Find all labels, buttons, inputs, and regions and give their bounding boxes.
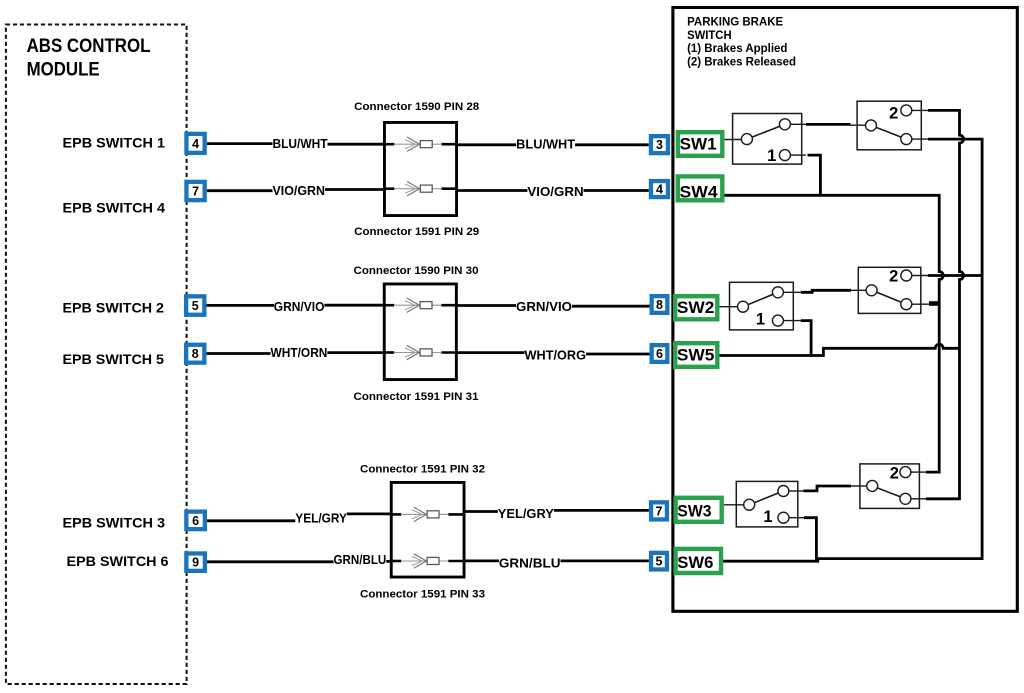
ABS pin 8 [186,345,204,363]
svg-text:(2) Brakes Released: (2) Brakes Released [687,54,796,68]
svg-text:VIO/GRN: VIO/GRN [273,184,326,198]
svg-text:EPB SWITCH 2: EPB SWITCH 2 [63,300,165,316]
wire S1a to S1b [806,123,851,126]
switch S3a (row3 left) [736,481,798,527]
svg-text:Connector 1591 PIN 33: Connector 1591 PIN 33 [360,589,485,601]
svg-text:EPB SWITCH 3: EPB SWITCH 3 [63,515,166,531]
ABS control module box (dashed) [6,25,187,685]
svg-text:Connector 1591 PIN 32: Connector 1591 PIN 32 [360,464,485,476]
wire SW6 to bus (left segment with step) [723,559,818,562]
net SW4 bus (SW4 to S3b contact2, hops over S2b contact2 wire) [725,195,944,472]
connector box 1591 lower [390,482,466,577]
switch pin 5 [651,553,667,570]
wire S3a to S3b [804,486,852,491]
wire S2a top contact lead [783,291,801,293]
ABS pin 6 [186,512,205,530]
svg-text:1: 1 [763,508,772,526]
wire WHT/ORN label to connector 1591 [327,351,382,354]
svg-text:9: 9 [192,556,199,570]
svg-text:1: 1 [767,147,776,165]
svg-text:EPB SWITCH 1: EPB SWITCH 1 [63,135,166,151]
svg-text:Connector 1591 PIN 29: Connector 1591 PIN 29 [354,226,479,238]
parking brake switch box [673,8,1017,612]
svg-text:SWITCH: SWITCH [687,28,732,42]
svg-text:Connector 1590 PIN 30: Connector 1590 PIN 30 [354,265,479,277]
svg-text:WHT/ORN: WHT/ORN [271,346,328,360]
wire S2b contact2 lead [912,275,928,277]
svg-text:EPB SWITCH 4: EPB SWITCH 4 [63,200,166,216]
node SW4 [678,176,723,201]
switch S3b (row3 right) [860,464,920,509]
svg-text:VIO/GRN: VIO/GRN [527,185,583,199]
svg-text:ABS CONTROL: ABS CONTROL [27,35,151,57]
wire connector to WHT/ORG right label [458,351,525,354]
svg-text:4: 4 [192,137,199,151]
node SW3 [676,498,722,522]
node SW2 [675,296,717,319]
wire SW1 to switch S1a common [725,139,742,141]
wire pin6 to YEL/GRY label [207,519,295,522]
svg-text:SW5: SW5 [677,347,715,365]
svg-text:2: 2 [889,268,898,286]
wire S3b bottom contact lead [911,498,926,500]
wire S3b contact2 lead [911,471,926,473]
svg-text:7: 7 [656,504,663,518]
wire pin7 to VIO/GRN label [207,189,273,192]
svg-text:5: 5 [192,299,199,313]
switch pin 6 [652,345,668,362]
svg-text:3: 3 [656,138,663,152]
wire S2a to S2b [801,290,851,292]
wire YEL/GRY right label to pin 7 [554,509,649,512]
wire S1a top contact lead [790,123,806,125]
wire connector to GRN/VIO right label [458,304,516,307]
svg-text:GRN/VIO: GRN/VIO [516,300,572,314]
wire VIO/GRN label to connector 1591 [325,188,383,191]
wire pin9 to GRN/BLU label [207,560,334,563]
svg-text:BLU/WHT: BLU/WHT [516,138,575,152]
switch S1b (row1 right) [857,101,921,150]
wire S3a contact1 lead [789,517,806,519]
wire connector to GRN/BLU right label [466,560,499,563]
wire GRN/BLU label to connector 1591 [386,560,390,563]
wire pin5 to GRN/VIO label [207,304,275,307]
svg-text:SW1: SW1 [680,135,717,153]
node SW1 [678,132,722,156]
svg-text:8: 8 [656,298,663,312]
wire S2b common lead [851,289,866,291]
switch pin 4 [651,181,668,197]
wire S3b common lead [851,485,867,487]
switch S2a (row2 left) [730,282,794,330]
svg-text:SW6: SW6 [677,554,713,572]
svg-text:PARKING BRAKE: PARKING BRAKE [687,15,783,29]
svg-text:YEL/GRY: YEL/GRY [295,511,347,525]
svg-text:1: 1 [756,311,765,329]
svg-text:8: 8 [192,347,199,361]
wire pin8 to WHT/ORN label [207,352,271,355]
svg-text:GRN/BLU: GRN/BLU [499,557,561,571]
svg-text:6: 6 [192,514,199,528]
wire VIO/GRN right label to pin 4 [584,189,649,192]
switch S1a (row1 left) [733,114,802,166]
svg-text:2: 2 [889,105,898,123]
wire S1a contact1 down to SW4 net [808,155,821,195]
ABS pin 9 [186,553,205,570]
wire S1b common lead [851,124,866,126]
svg-text:5: 5 [656,555,663,569]
wire S3a contact1 down to SW6 net [804,518,816,562]
node SW5 [675,343,717,367]
wire S1b bottom contact lead [912,138,928,140]
svg-text:MODULE: MODULE [27,59,100,81]
svg-text:Connector 1591 PIN 31: Connector 1591 PIN 31 [354,391,479,403]
wire connector to YEL/GRY right label [466,510,498,513]
wire GRN/VIO right label to pin 8 [572,305,650,308]
wire BLU/WHT label to connector 1590 [328,143,384,146]
svg-text:SW2: SW2 [677,299,715,317]
wire GRN/BLU right label to pin 5 [561,560,649,563]
ABS pin 7 [186,182,204,200]
node SW6 [676,549,721,573]
svg-text:4: 4 [656,182,663,196]
svg-text:6: 6 [656,347,663,361]
wire S1b contact2 lead [912,109,928,111]
svg-text:EPB SWITCH 5: EPB SWITCH 5 [63,351,165,367]
svg-text:YEL/GRY: YEL/GRY [498,507,555,521]
svg-text:(1) Brakes Applied: (1) Brakes Applied [687,41,787,55]
wire WHT/ORG right label to pin 6 [586,353,650,356]
wire YEL/GRY label to connector 1591 [347,513,390,516]
svg-text:SW3: SW3 [677,502,711,520]
wire SW3 to switch S3a common [724,504,744,506]
ABS pin 4 [186,134,204,153]
switch S2b (row2 right) [858,267,921,313]
net SW1-2 bus (S1b contact2 to S3b bottom, hops over two wires) [926,110,964,498]
wire SW2 to switch S2a common [720,306,738,308]
svg-text:WHT/ORG: WHT/ORG [525,349,587,363]
wire SW5 to SW1-2 bus (hop over SW4 bus) [720,344,960,355]
svg-text:Connector 1590 PIN 28: Connector 1590 PIN 28 [354,101,479,113]
wire S2a contact1 lead [783,320,806,322]
svg-text:BLU/WHT: BLU/WHT [273,137,328,151]
svg-text:GRN/VIO: GRN/VIO [274,300,325,314]
wire S2b bottom contact lead [912,303,929,305]
connector box 1590/1591 upper [383,122,458,215]
ABS pin 5 [186,296,204,314]
switch pin 3 [651,136,668,153]
switch pin 8 [652,296,668,313]
wire S3a top contact lead [789,490,804,492]
wire connector to VIO/GRN right label [458,189,527,192]
svg-text:GRN/BLU: GRN/BLU [334,553,387,567]
wire GRN/VIO label to connector 1590 [324,304,382,307]
wire BLU/WHT right label to pin 3 [575,143,649,146]
svg-text:EPB SWITCH 6: EPB SWITCH 6 [67,553,169,569]
wire connector to BLU/WHT right label [458,143,516,146]
wire S1a contact1 lead [790,154,806,156]
svg-text:7: 7 [192,184,199,198]
net SW6 bus (S1b bottom contact down to SW6) [816,139,982,558]
svg-text:2: 2 [890,465,899,483]
switch pin 7 [651,502,667,519]
connector box 1590/1591 middle [383,284,458,380]
svg-text:SW4: SW4 [680,184,719,202]
wire S2a contact1 down to SW5 net [801,321,811,356]
junction S2b bottom to SW4 bus [929,301,940,306]
wire S2b contact2 to SW6 bus [928,274,982,277]
wire pin4 to BLU/WHT label [207,142,273,145]
